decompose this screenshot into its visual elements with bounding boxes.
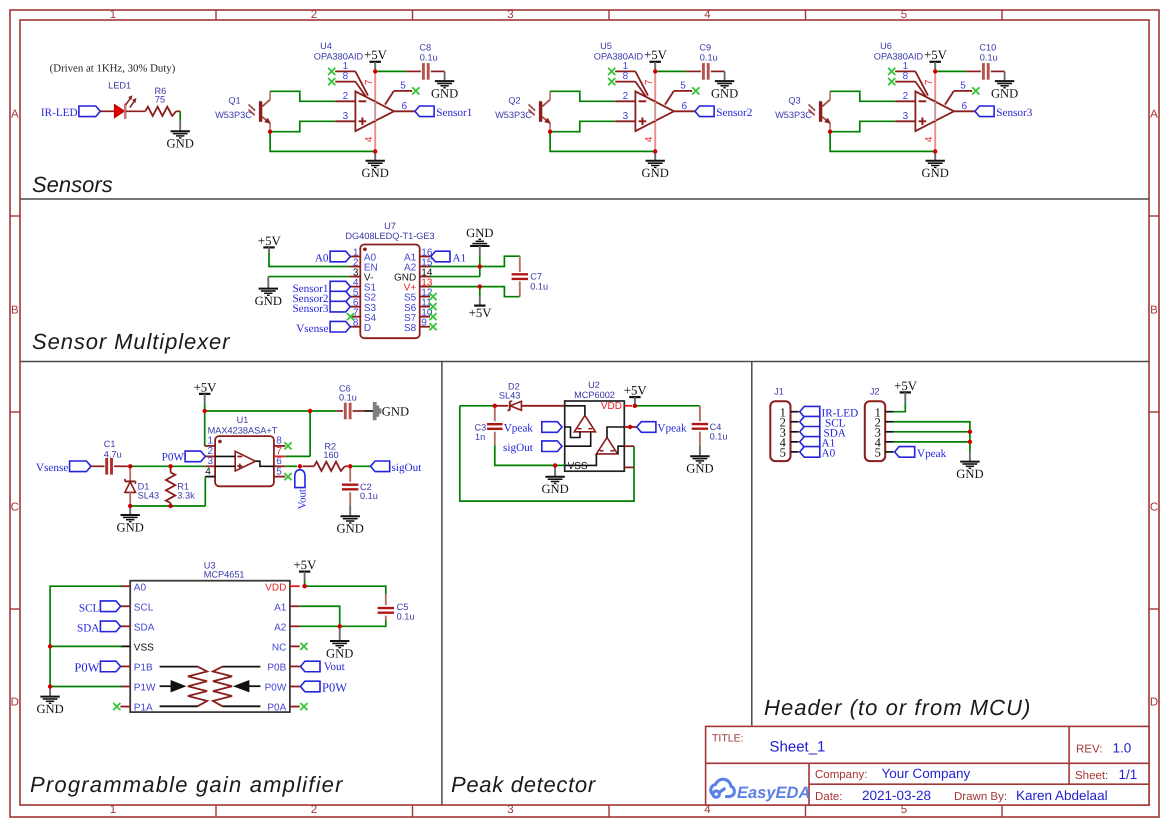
net flag Vsense at PGA input xyxy=(70,461,91,472)
svg-text:Sheet:: Sheet: xyxy=(1075,770,1108,782)
capacitor C6 xyxy=(344,403,347,420)
svg-text:C: C xyxy=(1150,502,1158,514)
U1 pin 7 V+ xyxy=(274,455,285,457)
svg-text:Date:: Date: xyxy=(815,791,843,803)
resistor R6 xyxy=(145,107,176,116)
svg-text:Sensor1: Sensor1 xyxy=(436,107,472,119)
phototransistor Q1 xyxy=(259,101,262,122)
no-connect X U4 pin 8 xyxy=(328,78,335,85)
no-connect X U5 pin 5 xyxy=(692,87,699,94)
net flag Sensor2 at U7 xyxy=(330,291,350,302)
ground below C10 xyxy=(995,80,1014,82)
U7 pin 1 A0 xyxy=(349,256,360,258)
U7 pin 11 S6 xyxy=(420,306,430,308)
svg-text:9: 9 xyxy=(421,318,427,329)
U3 wiper arrow P1W xyxy=(160,685,172,687)
net flag A0 at J1 pin 5 xyxy=(800,447,820,458)
net flag A1 at J1 pin 4 xyxy=(800,437,820,448)
svg-text:0.1u: 0.1u xyxy=(980,53,998,63)
svg-text:C1: C1 xyxy=(104,439,116,449)
junction U3 VDD node xyxy=(302,584,306,588)
junction U2 amp B output node xyxy=(628,425,632,429)
op-amp U4 pin 5 feedback xyxy=(385,91,394,105)
U7 pin 2 EN xyxy=(349,266,360,268)
wire Q3 emitter to ground rail xyxy=(830,132,935,152)
svg-text:1.0: 1.0 xyxy=(1113,741,1132,756)
svg-text:Q1: Q1 xyxy=(228,96,240,106)
U3 pin P0A xyxy=(290,706,300,708)
wire C6 to GND flag xyxy=(353,410,365,412)
op-amp U6 pin 4 V- xyxy=(934,121,936,151)
svg-text:P0W: P0W xyxy=(265,683,287,694)
no-connect X U7 pin S4 xyxy=(347,313,354,320)
svg-text:Peak detector: Peak detector xyxy=(451,772,597,797)
svg-text:(Driven at 1KHz, 30% Duty): (Driven at 1KHz, 30% Duty) xyxy=(50,63,176,75)
section divider below Sensors xyxy=(20,198,1149,200)
junction D1 bottom node xyxy=(128,504,132,508)
svg-text:A0: A0 xyxy=(315,253,329,265)
frame row letters left xyxy=(11,109,19,709)
multiplexer U7 body xyxy=(360,245,419,339)
junction U4 V+ node xyxy=(373,69,377,73)
svg-text:0.1u: 0.1u xyxy=(700,53,718,63)
op-amp U6 pin 3 IN+ xyxy=(895,120,915,122)
U3 potentiometer element P0 xyxy=(223,666,261,668)
net flag Vpeak at U2 output xyxy=(637,422,656,433)
svg-text:Vpeak: Vpeak xyxy=(657,423,687,435)
svg-text:P0W: P0W xyxy=(74,661,99,675)
ground below D1 xyxy=(129,506,131,515)
junction U2 VSS node xyxy=(553,463,557,467)
wire Q3 collector to op-amp IN- xyxy=(830,91,895,101)
svg-text:SDA: SDA xyxy=(134,622,155,633)
junction at Q1 emitter xyxy=(268,130,272,134)
svg-text:U4: U4 xyxy=(320,41,332,51)
op-amp U4 pin 8 trim xyxy=(335,81,355,83)
svg-text:0.1u: 0.1u xyxy=(530,281,548,291)
junction R1 bottom node xyxy=(168,504,172,508)
capacitor C8 xyxy=(422,63,425,80)
op-amp U6 input polarity marks xyxy=(919,100,927,102)
svg-text:D: D xyxy=(364,323,371,334)
svg-text:+5V: +5V xyxy=(194,380,218,394)
U1 pin 6 output xyxy=(274,465,285,467)
wire C9 to ground xyxy=(711,70,725,72)
junction U6 ground node xyxy=(933,149,937,153)
op-amp U5 pin 4 V- xyxy=(654,121,656,151)
Q3 incident light arrows xyxy=(809,105,816,111)
svg-text:4: 4 xyxy=(205,466,211,477)
svg-text:0.1u: 0.1u xyxy=(397,612,415,622)
svg-text:1: 1 xyxy=(207,436,213,447)
U3 pin VSS xyxy=(120,645,130,647)
net flag IR-LED xyxy=(79,106,100,117)
net flag A0 at U7 xyxy=(330,251,350,262)
svg-text:W53P3C: W53P3C xyxy=(495,110,532,120)
title block title row divider xyxy=(706,762,1149,764)
svg-text:A2: A2 xyxy=(274,622,287,633)
net flag Vout at U3 P0B xyxy=(300,661,320,672)
junction at Q3 emitter xyxy=(828,130,832,134)
svg-text:6: 6 xyxy=(401,101,407,112)
wire C8 to ground xyxy=(431,70,445,72)
svg-text:VDD: VDD xyxy=(601,401,622,412)
svg-text:U6: U6 xyxy=(880,41,892,51)
U3 pin A2 xyxy=(290,625,300,627)
svg-text:GND: GND xyxy=(991,87,1018,101)
svg-text:3: 3 xyxy=(343,111,349,122)
svg-text:4: 4 xyxy=(704,804,711,816)
op-amp U4 pin 2 IN- xyxy=(335,100,355,102)
svg-text:GND: GND xyxy=(466,226,493,240)
phototransistor Q3 xyxy=(819,101,822,122)
svg-text:SCL: SCL xyxy=(134,602,154,613)
svg-text:2: 2 xyxy=(623,91,629,102)
title block outline xyxy=(706,726,1149,805)
svg-text:4: 4 xyxy=(924,136,935,142)
no-connect X U4 pin 1 xyxy=(328,68,335,75)
no-connect X U6 pin 5 xyxy=(972,87,979,94)
U2 amp A polarity marks xyxy=(578,428,582,430)
power flag +5V at J2 pin1 xyxy=(900,391,911,393)
svg-text:6: 6 xyxy=(276,456,282,467)
Q2 incident light arrows xyxy=(529,105,536,111)
U7 pin 16 A1 xyxy=(420,256,430,258)
svg-text:4: 4 xyxy=(704,9,711,21)
wire U1 V+ to rail xyxy=(285,455,310,457)
svg-text:0.1u: 0.1u xyxy=(710,432,728,442)
svg-text:C9: C9 xyxy=(699,42,711,52)
no-connect X U3 NC xyxy=(300,643,307,650)
svg-text:+5V: +5V xyxy=(293,558,317,572)
svg-text:3: 3 xyxy=(507,804,513,816)
frame row letters right xyxy=(1150,109,1158,709)
svg-text:GND: GND xyxy=(541,482,568,496)
svg-text:EasyEDA: EasyEDA xyxy=(737,784,810,802)
svg-text:GND: GND xyxy=(167,137,194,151)
wire C10 to ground xyxy=(991,70,1005,72)
svg-text:5: 5 xyxy=(901,9,907,21)
svg-text:Vsense: Vsense xyxy=(296,323,328,335)
svg-text:S8: S8 xyxy=(404,323,417,334)
svg-text:IR-LED: IR-LED xyxy=(41,107,78,119)
svg-text:1/1: 1/1 xyxy=(1119,767,1138,782)
U2 amp A wiring xyxy=(565,406,585,416)
svg-text:SDA: SDA xyxy=(77,623,99,635)
svg-text:Sheet_1: Sheet_1 xyxy=(770,739,826,756)
capacitor C9 xyxy=(702,63,705,80)
svg-text:6: 6 xyxy=(961,101,967,112)
junction C3 top node xyxy=(493,404,497,408)
svg-text:Q2: Q2 xyxy=(508,96,520,106)
U7 pin 14 GND xyxy=(420,276,430,278)
svg-text:GND: GND xyxy=(362,166,389,180)
U3 pin P1W xyxy=(120,686,130,688)
op-amp U4 input polarity marks xyxy=(359,100,367,102)
diode D1 SL43 xyxy=(129,466,131,481)
net flag P0W at U3 P1B xyxy=(100,661,120,672)
ground below U2 VSS xyxy=(554,465,556,476)
ground flag right of C6 xyxy=(373,402,381,419)
op-amp U6 pin 7 V+ xyxy=(934,71,936,101)
wire Q2 emitter to ground rail xyxy=(550,132,655,152)
U7 pin 6 S3 xyxy=(349,306,360,308)
svg-text:5: 5 xyxy=(960,80,966,91)
svg-text:Karen Abdelaal: Karen Abdelaal xyxy=(1016,788,1108,803)
svg-text:160: 160 xyxy=(323,450,338,460)
net flag Vpeak at U2 amp A input xyxy=(542,422,562,433)
svg-text:0.1u: 0.1u xyxy=(360,491,378,501)
op-amp U2 body xyxy=(565,401,625,471)
power flag +5V at U4 xyxy=(370,61,381,63)
op-amp U6 pin 2 IN- xyxy=(895,100,915,102)
op-amp U4 pin 4 V- xyxy=(374,121,376,151)
op-amp U5 pin 1 trim xyxy=(615,70,635,72)
power flag +5V at U3 VDD xyxy=(299,570,310,572)
U1 pin1 marker dot xyxy=(218,440,222,444)
wire C5 to U3 A2 node xyxy=(340,620,386,626)
net flag Sensor3 at U7 xyxy=(330,301,350,312)
junction U1 V+ rail right xyxy=(308,409,312,413)
wire Q1 collector to op-amp IN- xyxy=(270,91,335,101)
net flag IR-LED at J1 pin 1 xyxy=(800,406,820,417)
svg-text:2: 2 xyxy=(311,9,317,21)
svg-text:+5V: +5V xyxy=(469,306,493,320)
power flag +5V at U6 xyxy=(930,61,941,63)
U7 pin 5 S2 xyxy=(349,296,360,298)
ground above U7 decoupling node xyxy=(470,245,489,247)
svg-text:W53P3C: W53P3C xyxy=(215,110,252,120)
svg-text:A: A xyxy=(11,109,19,121)
svg-text:A1: A1 xyxy=(453,253,467,265)
op-amp U5 pin 5 feedback xyxy=(665,91,674,105)
connector J1 body xyxy=(770,401,790,461)
svg-text:5: 5 xyxy=(680,80,686,91)
net flag SDA at U3 xyxy=(100,621,120,632)
U7 pin 13 V+ xyxy=(420,286,430,288)
net flag Sensor2 xyxy=(695,106,714,117)
svg-text:Header (to or from MCU): Header (to or from MCU) xyxy=(764,695,1031,720)
no-connect X U3 P0A xyxy=(300,703,307,710)
wire Q1 emitter to ground rail xyxy=(270,132,375,152)
net flag Sensor3 xyxy=(975,106,994,117)
no-connect X U7 pin S8 xyxy=(429,323,436,330)
U3 pin NC xyxy=(290,645,300,647)
svg-text:3: 3 xyxy=(507,9,513,21)
wire V+ node to C7 bottom xyxy=(480,287,520,297)
Q1 emitter pin xyxy=(269,123,271,131)
U2 amp B triangle xyxy=(596,438,617,454)
svg-text:C7: C7 xyxy=(530,271,542,281)
ground below U6 xyxy=(926,160,945,162)
svg-text:REV:: REV: xyxy=(1076,744,1102,756)
svg-text:+5V: +5V xyxy=(644,48,668,62)
U3 pin P1A xyxy=(120,706,130,708)
section divider between Peak detector and Header xyxy=(751,362,753,726)
svg-text:GND: GND xyxy=(686,462,713,476)
U1 pin 2 IN- xyxy=(205,455,215,457)
junction U7 gnd node xyxy=(478,264,482,268)
svg-text:6: 6 xyxy=(681,101,687,112)
frame column numbers bottom xyxy=(110,804,907,816)
net flag SCL at U3 xyxy=(100,601,120,612)
U2 amp A triangle xyxy=(574,415,595,431)
svg-text:OPA380AID: OPA380AID xyxy=(314,52,364,62)
peak detector feedback loop wire xyxy=(460,406,634,501)
svg-text:8: 8 xyxy=(276,436,282,447)
junction U2 VDD node xyxy=(633,404,637,408)
svg-text:P0W: P0W xyxy=(162,452,185,464)
wire C3 bottom to U2 VSS xyxy=(495,445,565,465)
capacitor C3 xyxy=(494,406,496,421)
svg-text:2: 2 xyxy=(343,91,349,102)
junction U6 V+ node xyxy=(933,69,937,73)
U3 pin A0 xyxy=(120,585,130,587)
svg-text:LED1: LED1 xyxy=(108,80,131,90)
wire U7 A2 to gnd node xyxy=(430,266,480,268)
ground below U5 xyxy=(646,160,665,162)
svg-text:5: 5 xyxy=(875,446,881,460)
svg-text:MCP6002: MCP6002 xyxy=(574,390,615,400)
capacitor C5 xyxy=(385,594,387,601)
wire U3 A1 jumper xyxy=(300,606,340,626)
svg-text:GND: GND xyxy=(255,294,282,308)
net flag Sensor1 at U7 xyxy=(330,281,350,292)
svg-text:SCL: SCL xyxy=(79,602,100,614)
svg-text:P1W: P1W xyxy=(134,683,156,694)
svg-text:VDD: VDD xyxy=(265,582,286,593)
ground below C8 xyxy=(435,80,454,82)
no-connect X U7 pin S6 xyxy=(429,303,436,310)
U7 pin 12 S5 xyxy=(420,296,430,298)
svg-text:8: 8 xyxy=(623,71,629,82)
wire R2 to sigOut xyxy=(345,465,348,467)
ground below R6 xyxy=(171,130,190,132)
U2 VDD pin stub xyxy=(624,405,632,407)
no-connect X U5 pin 1 xyxy=(608,68,615,75)
no-connect X U1 pin 8 xyxy=(284,442,291,449)
wire gnd node to C7 top xyxy=(480,256,520,266)
svg-text:GND: GND xyxy=(36,702,63,716)
op-amp U4 triangle xyxy=(355,91,394,131)
frame column ticks top xyxy=(216,10,1002,20)
svg-text:GND: GND xyxy=(711,87,738,101)
svg-text:C3: C3 xyxy=(474,422,486,432)
section divider between PGA and Peak detector xyxy=(441,362,443,806)
svg-text:2: 2 xyxy=(311,804,317,816)
svg-text:C: C xyxy=(11,502,19,514)
svg-text:Vout: Vout xyxy=(324,661,346,673)
op-amp U6 pin 1 trim xyxy=(895,70,915,72)
ground at U7 V- xyxy=(259,288,278,290)
Q2 collector pin xyxy=(549,91,551,99)
svg-text:5: 5 xyxy=(780,446,786,460)
op-amp U4 pin 6 output xyxy=(394,110,415,112)
capacitor C7 xyxy=(519,256,521,272)
EasyEDA logo cloud xyxy=(711,779,735,797)
wire U1 pin4 to ground rail xyxy=(204,477,206,506)
svg-text:GND: GND xyxy=(431,87,458,101)
svg-text:GND: GND xyxy=(382,404,409,418)
U3 potentiometer element P1 xyxy=(160,666,198,668)
U7 pin 4 S1 xyxy=(349,286,360,288)
wire U3 A2 to node xyxy=(300,625,340,627)
svg-text:4: 4 xyxy=(644,136,655,142)
wire Q1 emitter to op-amp IN+ xyxy=(270,121,335,131)
wire U7 V+ to +5V node xyxy=(430,286,480,288)
svg-text:MAX4238ASA+T: MAX4238ASA+T xyxy=(208,425,278,435)
wire J2 pin2 to gnd rail xyxy=(894,422,970,452)
U1 pin 8 xyxy=(274,445,285,447)
svg-text:OPA380AID: OPA380AID xyxy=(594,52,644,62)
no-connect X U7 pin S5 xyxy=(429,293,436,300)
svg-text:+5V: +5V xyxy=(258,234,282,248)
U2 amp B output pin stub xyxy=(624,445,634,447)
wire +5V to J2 pin1 xyxy=(894,402,906,412)
svg-text:sigOut: sigOut xyxy=(503,442,534,454)
wire U2 VDD to C4 xyxy=(635,405,700,407)
svg-text:4: 4 xyxy=(364,136,375,142)
U7 pin 7 S4 xyxy=(349,316,360,318)
svg-text:Sensor2: Sensor2 xyxy=(716,107,752,119)
net flag A1 at U7 xyxy=(431,251,450,262)
svg-text:7: 7 xyxy=(364,79,375,85)
wire IR-LED flag to LED1 xyxy=(100,110,114,112)
capacitor C4 xyxy=(699,406,701,421)
op-amp U5 pin 2 IN- xyxy=(615,100,635,102)
op-amp U5 pin 3 IN+ xyxy=(615,120,635,122)
svg-text:Sensor3: Sensor3 xyxy=(292,303,328,315)
junction U3 VSS node xyxy=(48,644,52,648)
U7 pin1 marker dot xyxy=(363,248,367,252)
U7 pin 15 A2 xyxy=(420,266,430,268)
junction D1 top node xyxy=(128,464,132,468)
junction J2 pin3 node xyxy=(968,430,972,434)
U1 pin 4 V- xyxy=(205,476,215,478)
wire J2 pin3 to gnd rail xyxy=(894,431,970,433)
net flag Vsense at U7 xyxy=(330,321,350,332)
U2 amp B polarity marks xyxy=(600,450,604,452)
junction J2 pin4 node xyxy=(968,440,972,444)
ground below U3 left rail xyxy=(49,687,51,697)
net flag sigOut at U2 amp A input xyxy=(542,441,562,452)
ground below U4 xyxy=(366,160,385,162)
wire C3 node to left rail xyxy=(460,405,495,407)
net flag Vpeak at J2 pin5 xyxy=(895,447,915,458)
junction R1 top node xyxy=(168,464,172,468)
svg-text:A1: A1 xyxy=(274,602,287,613)
capacitor C10 xyxy=(982,63,985,80)
svg-text:3.3k: 3.3k xyxy=(177,491,195,501)
svg-text:Company:: Company: xyxy=(815,769,867,781)
op-amp U6 pin 5 feedback xyxy=(945,91,954,105)
svg-text:7: 7 xyxy=(276,446,282,457)
svg-text:75: 75 xyxy=(155,94,165,104)
wire Q3 emitter to op-amp IN+ xyxy=(830,121,895,131)
junction U5 V+ node xyxy=(653,69,657,73)
Q1 collector pin xyxy=(269,91,271,99)
svg-text:2: 2 xyxy=(903,91,909,102)
no-connect X U1 pin 5 xyxy=(284,473,291,480)
op-amp U6 pin 8 trim xyxy=(895,81,915,83)
wire R6 to ground xyxy=(176,110,180,112)
wire U3 VDD to C5 xyxy=(305,586,386,594)
svg-text:1: 1 xyxy=(110,804,116,816)
frame column ticks bottom xyxy=(216,805,1002,817)
wire U4 V+ to C8 xyxy=(377,70,405,72)
svg-text:1n: 1n xyxy=(475,432,485,442)
U7 pin 8 D xyxy=(349,326,360,328)
